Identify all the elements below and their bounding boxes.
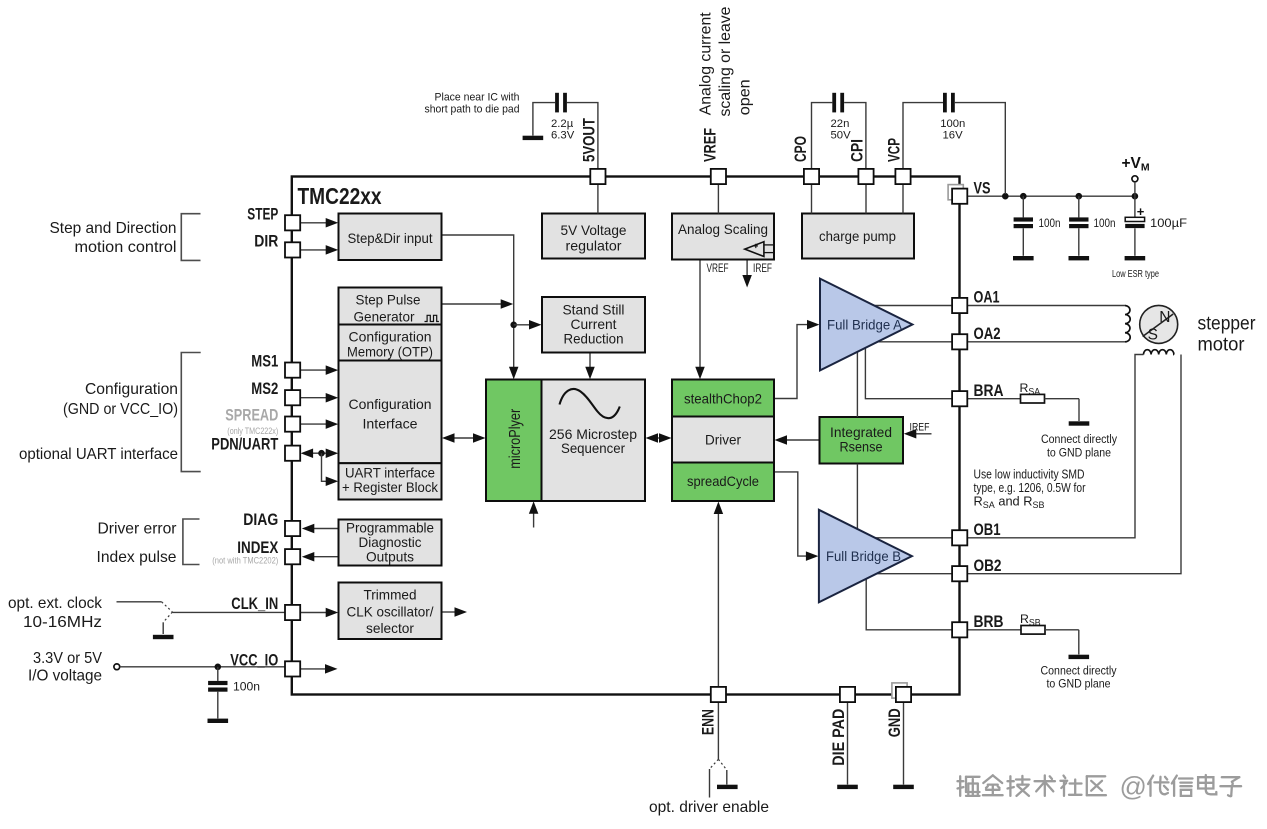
bracket configuration <box>181 353 200 472</box>
wire Configuration Interface to microPlyer bidirectional <box>452 437 475 439</box>
svg-text:to GND plane: to GND plane <box>1047 445 1111 459</box>
amplifier Full Bridge A <box>820 279 912 371</box>
inductor motor coil B <box>1144 350 1175 355</box>
wire IREF into Integrated Rsense <box>916 433 932 435</box>
IC U1 TMC22xx outline <box>292 177 960 695</box>
switch clock select (dotted) <box>162 602 173 612</box>
svg-text:regulator: regulator <box>566 239 622 254</box>
svg-text:(not with TMC2202): (not with TMC2202) <box>212 555 278 566</box>
wire arrow into microPlyer bottom <box>533 512 535 528</box>
wire DIR pin to Step&Dir input <box>300 249 328 251</box>
wire CPO to C2 <box>812 103 833 169</box>
wire VCP to C3 <box>903 103 943 169</box>
svg-text:100n: 100n <box>233 682 260 694</box>
svg-text:STEP: STEP <box>247 205 278 223</box>
svg-text:10-16MHz: 10-16MHz <box>23 614 102 631</box>
wire Full Bridge B to BRB pin <box>866 577 952 630</box>
wire Full Bridge A to Integrated Rsense <box>856 349 858 417</box>
wire 5VOUT pin to 5V regulator <box>597 184 599 213</box>
capacitor C4 100n at VS <box>1022 196 1024 217</box>
terminal +VM <box>1132 176 1138 182</box>
svg-text:optional UART interface: optional UART interface <box>19 446 178 463</box>
svg-text:VCC_IO: VCC_IO <box>230 651 278 669</box>
svg-text:IREF: IREF <box>910 422 930 434</box>
svg-text:Configuration: Configuration <box>85 381 178 398</box>
wire Integrated Rsense to Full Bridge B <box>856 464 858 530</box>
wire VCC_IO input to pin <box>120 666 285 668</box>
svg-text:Integrated: Integrated <box>830 425 892 440</box>
icon sine wave <box>560 389 620 418</box>
icon pulse waveform <box>425 315 439 321</box>
wire STEP pin to Step&Dir input <box>300 222 328 224</box>
svg-text:Analog Scaling: Analog Scaling <box>678 222 768 237</box>
wire clock to CLK_IN pin <box>172 611 285 613</box>
pin MS2 <box>285 390 300 405</box>
svg-text:Connect directly: Connect directly <box>1041 664 1118 678</box>
svg-text:Place near IC with: Place near IC with <box>435 91 520 103</box>
svg-text:stepper: stepper <box>1198 312 1256 334</box>
svg-text:CLK_IN: CLK_IN <box>231 595 278 613</box>
svg-text:100n: 100n <box>940 118 965 130</box>
pin VCP <box>895 169 910 184</box>
svg-text:Rsense: Rsense <box>840 439 883 454</box>
svg-text:PDN/UART: PDN/UART <box>211 436 278 454</box>
capacitor C1 2.2uF <box>555 93 559 113</box>
capacitor C7 100n at VCC_IO <box>217 667 219 681</box>
capacitor C5 100n at VS <box>1078 196 1080 217</box>
pin VREF <box>711 169 726 184</box>
wire VCP pin to charge pump <box>902 184 904 213</box>
block Trimmed CLK oscillator/selector <box>339 583 442 640</box>
svg-text:MS2: MS2 <box>251 380 278 398</box>
svg-text:Sequencer: Sequencer <box>561 441 625 456</box>
svg-text:Full Bridge B: Full Bridge B <box>826 549 901 564</box>
wire VREF Analog Scaling to stealthChop2 <box>699 260 701 369</box>
pin ENN <box>711 687 726 702</box>
svg-text:microPlyer: microPlyer <box>507 409 524 469</box>
wire spreadCycle to Full Bridge B <box>774 472 808 556</box>
block Configuration Interface <box>339 361 442 464</box>
block Step Pulse Generator <box>339 288 442 325</box>
svg-text:Low ESR type: Low ESR type <box>1112 269 1159 280</box>
wire OA1 net to motor coil A <box>870 305 1125 307</box>
pin STEP <box>285 215 300 230</box>
wire OB1 net to motor coil B <box>875 355 1144 538</box>
svg-text:CPO: CPO <box>792 136 810 162</box>
wire MS2 pin to Configuration Interface <box>300 397 328 399</box>
wire RSA to ground <box>1078 399 1080 421</box>
pin GND <box>892 683 907 698</box>
ground at C6 <box>1125 256 1146 260</box>
ground at RSA <box>1069 421 1090 425</box>
svg-text:(only TMC222x): (only TMC222x) <box>227 426 278 437</box>
wire CLK_IN pin to Trimmed CLK oscillator <box>300 612 328 614</box>
svg-text:Reduction: Reduction <box>564 331 624 346</box>
ground at RSB <box>1069 655 1090 659</box>
ground at C5 <box>1069 256 1090 260</box>
wire Step&Dir input to microPlyer <box>442 235 514 369</box>
node junction on step line <box>510 322 517 329</box>
wire PDN branch to UART interface block <box>322 453 329 481</box>
svg-text:OB2: OB2 <box>974 557 1002 575</box>
svg-text:SPREAD: SPREAD <box>225 407 278 425</box>
svg-text:Outputs: Outputs <box>366 549 414 564</box>
block spreadCycle <box>672 463 774 502</box>
watermark juejin tech community @ youxin electronics <box>960 778 963 798</box>
wire 256 Microstep Sequencer to Driver bidirectional <box>655 437 662 439</box>
motor M1 stepper symbol <box>1140 305 1178 343</box>
wire IREF output arrow below Analog Scaling <box>746 260 748 275</box>
wire PDN/UART pin bidirectional to Configuration Interface <box>308 452 330 454</box>
wire stealthChop2 to Full Bridge A <box>774 325 809 399</box>
ground at ENN switch <box>717 785 738 789</box>
svg-text:motor: motor <box>1198 333 1245 355</box>
svg-text:Index pulse: Index pulse <box>97 549 177 566</box>
svg-text:22n: 22n <box>831 118 850 130</box>
svg-text:OA2: OA2 <box>974 325 1001 343</box>
capacitor C3 100n <box>943 93 947 113</box>
wire MS1 pin to Configuration Interface <box>300 369 328 371</box>
svg-text:Programmable: Programmable <box>346 520 434 535</box>
svg-text:Driver: Driver <box>705 432 741 447</box>
node junctions on VS rail <box>1002 193 1009 200</box>
wire Stand Still to 256 Microstep Sequencer <box>589 353 591 369</box>
svg-text:100n: 100n <box>1094 216 1116 230</box>
svg-text:short path to die pad: short path to die pad <box>425 103 520 115</box>
svg-text:charge pump: charge pump <box>819 229 896 244</box>
svg-text:MS1: MS1 <box>251 353 278 371</box>
block 5V Voltage regulator <box>542 214 645 259</box>
wire Programmable Diagnostic Outputs to INDEX pin <box>313 556 339 558</box>
pin CPO <box>804 169 819 184</box>
ground at C4 <box>1013 256 1034 260</box>
wire Step Pulse Generator output <box>442 303 503 305</box>
pin OA2 <box>952 334 967 349</box>
block Integrated Rsense <box>820 417 904 464</box>
svg-text:Step Pulse: Step Pulse <box>356 293 421 308</box>
pin PDN/UART <box>285 446 300 461</box>
svg-text:to GND plane: to GND plane <box>1047 677 1111 691</box>
wire C2 to CPI <box>844 103 866 169</box>
svg-text:Stand Still: Stand Still <box>563 302 625 317</box>
block Driver <box>672 417 774 463</box>
svg-text:opt. driver enable: opt. driver enable <box>649 799 769 816</box>
svg-text:OA1: OA1 <box>974 289 1000 307</box>
svg-text:100n: 100n <box>1039 216 1061 230</box>
svg-text:Full Bridge A: Full Bridge A <box>827 317 902 332</box>
switch opt driver enable (dotted) <box>710 759 719 769</box>
svg-text:Generator: Generator <box>354 310 415 325</box>
pin CLK_IN <box>285 605 300 620</box>
pin MS1 <box>285 363 300 378</box>
svg-text:Step and Direction: Step and Direction <box>50 220 177 237</box>
svg-text:scaling or leave: scaling or leave <box>717 6 734 116</box>
svg-text:Diagnostic: Diagnostic <box>359 535 422 550</box>
wire opt ext clock stub <box>117 601 162 603</box>
svg-text:TMC22xx: TMC22xx <box>298 183 382 209</box>
block microPlyer <box>486 380 542 502</box>
block UART interface + Register Block <box>339 463 442 499</box>
svg-text:VS: VS <box>974 179 991 197</box>
svg-text:VREF: VREF <box>707 263 729 275</box>
pin INDEX <box>285 549 300 564</box>
svg-text:BRB: BRB <box>974 613 1004 631</box>
svg-text:3.3V or 5V: 3.3V or 5V <box>33 650 102 667</box>
wire VREF pin to Analog Scaling <box>717 184 719 213</box>
resistor RSA <box>968 398 1021 400</box>
svg-text:BRA: BRA <box>974 382 1004 400</box>
svg-text:CLK oscillator/: CLK oscillator/ <box>347 604 434 619</box>
capacitor C2 22n <box>832 93 836 113</box>
svg-text:100µF: 100µF <box>1150 216 1188 230</box>
svg-text:spreadCycle: spreadCycle <box>687 474 759 489</box>
svg-text:open: open <box>736 79 753 115</box>
svg-text:@: @ <box>1120 772 1147 802</box>
block charge pump <box>802 214 914 259</box>
ground at C7 <box>208 719 229 723</box>
svg-text:Connect directly: Connect directly <box>1041 432 1118 446</box>
svg-text:Driver error: Driver error <box>98 521 177 538</box>
svg-text:IREF: IREF <box>753 263 772 275</box>
ground at GND pin <box>893 785 914 789</box>
svg-text:Configuration: Configuration <box>349 329 432 344</box>
wire CPO pin to charge pump <box>811 184 813 213</box>
wire C3 to VS rail <box>955 103 1006 194</box>
block stealthChop2 <box>672 380 774 417</box>
svg-text:DIR: DIR <box>254 232 278 250</box>
wire DIE PAD to ground <box>847 702 849 785</box>
pin BRA <box>952 391 967 406</box>
wire Programmable Diagnostic Outputs to DIAG pin <box>313 528 339 530</box>
terminal VCC_IO input <box>114 664 120 670</box>
svg-text:selector: selector <box>366 621 414 636</box>
svg-text:+ Register Block: + Register Block <box>342 480 438 495</box>
bracket diag/index <box>183 519 200 565</box>
svg-text:Step&Dir input: Step&Dir input <box>348 231 433 246</box>
svg-text:Configuration: Configuration <box>349 397 432 412</box>
node junction PDN branch <box>318 450 325 457</box>
svg-text:Memory (OTP): Memory (OTP) <box>347 344 433 359</box>
pin 5VOUT <box>590 169 605 184</box>
svg-text:stealthChop2: stealthChop2 <box>684 391 762 406</box>
ground at C1 <box>523 136 544 140</box>
svg-text:Interface: Interface <box>363 416 418 431</box>
block Configuration Memory (OTP) <box>339 325 442 361</box>
wire GND pin to ground <box>903 702 905 785</box>
block Analog Scaling <box>672 214 774 260</box>
svg-text:256 Microstep: 256 Microstep <box>549 427 637 442</box>
wire RSB to ground <box>1078 630 1080 655</box>
wire junction to Stand Still Current Reduction <box>514 324 531 326</box>
pin OA1 <box>952 298 967 313</box>
svg-text:5V Voltage: 5V Voltage <box>561 223 627 238</box>
wire Integrated Rsense to Driver <box>786 439 820 441</box>
resistor RSB <box>968 629 1021 631</box>
pin VS <box>948 185 963 200</box>
svg-text:OB1: OB1 <box>974 521 1001 539</box>
wire ENN pin to spreadCycle <box>717 512 719 687</box>
wire 5VOUT to C1 <box>567 103 598 169</box>
wire VCC_IO pin arrow <box>300 668 326 670</box>
svg-text:CPI: CPI <box>848 139 866 162</box>
svg-text:Trimmed: Trimmed <box>364 587 417 602</box>
block Stand Still Current Reduction <box>542 297 645 353</box>
pin DIAG <box>285 521 300 536</box>
pin OB2 <box>952 566 967 581</box>
block Programmable Diagnostic Outputs <box>339 520 442 566</box>
svg-text:2.2µ: 2.2µ <box>551 118 574 130</box>
svg-text:ENN: ENN <box>700 709 718 735</box>
pin CPI <box>858 169 873 184</box>
svg-text:I/O voltage: I/O voltage <box>28 668 102 685</box>
svg-text:opt. ext. clock: opt. ext. clock <box>8 595 102 612</box>
svg-text:Analog current: Analog current <box>697 12 714 116</box>
svg-text:DIAG: DIAG <box>243 511 278 529</box>
wire VS supply rail <box>968 195 1135 197</box>
svg-text:motion control: motion control <box>75 239 177 256</box>
ground at DIE PAD <box>837 785 858 789</box>
wire Trimmed CLK oscillator output <box>442 611 457 613</box>
pin VCC_IO <box>285 661 300 676</box>
svg-text:GND: GND <box>886 708 904 737</box>
block Step&Dir input <box>339 214 442 261</box>
pin SPREAD <box>285 417 300 432</box>
svg-text:VCP: VCP <box>885 138 903 162</box>
block 256 Microstep Sequencer <box>542 380 646 502</box>
svg-text:UART interface: UART interface <box>345 466 435 481</box>
wire C1 to ground <box>533 103 555 136</box>
wire CPI pin to charge pump <box>865 184 867 213</box>
amplifier Full Bridge B <box>819 510 912 603</box>
svg-text:VREF: VREF <box>701 128 719 162</box>
svg-text:6.3V: 6.3V <box>551 129 575 141</box>
inductor motor coil A <box>1125 306 1130 342</box>
svg-text:N: N <box>1159 309 1170 326</box>
svg-text:(GND or VCC_IO): (GND or VCC_IO) <box>63 401 178 418</box>
wire Full Bridge A to BRA pin <box>865 346 952 399</box>
capacitor C6 100uF electrolytic <box>1134 196 1136 217</box>
pin DIE PAD <box>840 687 855 702</box>
svg-text:5VOUT: 5VOUT <box>581 118 599 162</box>
ground at clock switch <box>153 635 174 639</box>
pin OB1 <box>952 530 967 545</box>
bracket step/dir <box>181 214 200 261</box>
svg-text:Current: Current <box>571 317 617 332</box>
svg-text:16V: 16V <box>943 129 964 141</box>
wire OA2 net to motor coil A <box>870 341 1125 343</box>
svg-text:DIE PAD: DIE PAD <box>830 709 848 766</box>
icon op-amp in Analog Scaling <box>745 242 764 257</box>
pin DIR <box>285 242 300 257</box>
svg-text:S: S <box>1148 327 1158 344</box>
wire ENN pin down to enable switch <box>717 702 719 759</box>
node junction at C7 <box>215 664 222 671</box>
wire OB2 net to motor coil B <box>876 355 1181 574</box>
svg-text:+: + <box>1137 204 1145 219</box>
wire SPREAD pin to Configuration Interface <box>300 423 328 425</box>
pin BRB <box>952 622 967 637</box>
